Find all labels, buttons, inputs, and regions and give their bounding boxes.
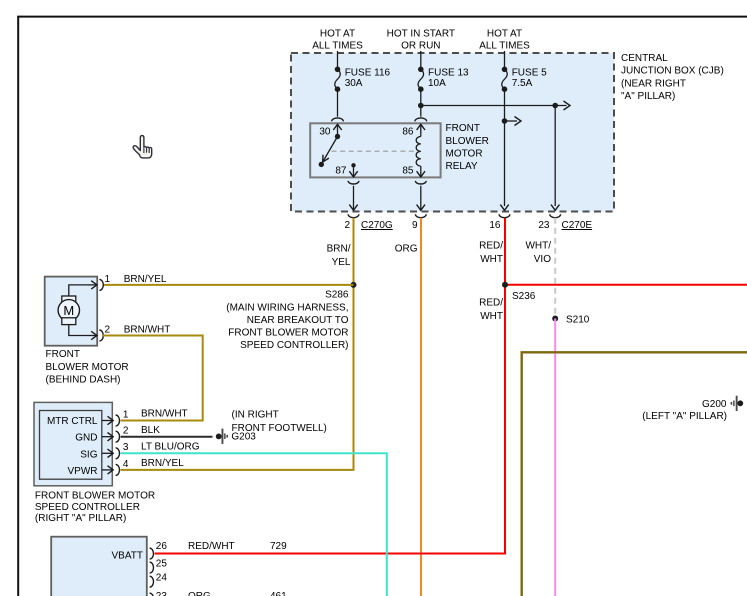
svg-text:1: 1 [105, 274, 111, 285]
wire dark BRN horizontal right edge and down [522, 352, 747, 596]
wire fuse13 branch to pin 23 column [418, 101, 570, 110]
svg-text:RED/: RED/ [479, 298, 503, 309]
connector C270G pin 2 at CJB border [344, 214, 392, 231]
splice S210 [552, 314, 590, 325]
label HOT IN START OR RUN [387, 29, 455, 52]
svg-text:HOT AT: HOT AT [487, 29, 522, 40]
wire label RED/WHT 729 [188, 541, 287, 552]
svg-text:85: 85 [402, 166, 414, 177]
controller name label [35, 490, 155, 524]
VBATT pin 26 connector [150, 541, 168, 559]
arrow down at CJB border pin 23 [551, 205, 559, 211]
VBATT pin 25 connector [150, 559, 168, 574]
svg-text:30: 30 [319, 127, 331, 138]
svg-text:FRONT: FRONT [46, 349, 80, 360]
svg-text:2: 2 [105, 324, 111, 335]
note (IN RIGHT FRONT FOOTWELL) [232, 410, 327, 434]
central junction box (CJB) dashed box [291, 53, 614, 212]
svg-text:2: 2 [123, 426, 129, 437]
svg-text:FUSE 116: FUSE 116 [345, 68, 391, 79]
svg-text:VPWR: VPWR [68, 466, 98, 477]
splice S236 [502, 282, 536, 302]
svg-text:1: 1 [123, 409, 129, 420]
svg-text:BRN/YEL: BRN/YEL [124, 274, 167, 285]
wire pin23 column inside CJB [554, 106, 556, 207]
svg-text:86: 86 [402, 127, 414, 138]
relay switch contact 30-87 [319, 134, 341, 167]
svg-text:26: 26 [156, 541, 168, 552]
svg-text:ALL TIMES: ALL TIMES [479, 41, 530, 52]
svg-text:BRN/WHT: BRN/WHT [124, 324, 171, 335]
svg-text:S286: S286 [325, 290, 349, 301]
speed controller inner box [40, 411, 102, 480]
svg-text:S236: S236 [512, 291, 536, 302]
svg-text:461: 461 [270, 591, 287, 596]
relay pin 86 entry connector [402, 118, 426, 138]
connector arc under relay pin 85 [415, 181, 426, 210]
connector C270E pin 23 at CJB border [538, 214, 592, 231]
svg-text:SIG: SIG [80, 449, 97, 460]
wire label BRN/WHT at motor pin2 [124, 324, 171, 335]
VBATT pin 23 connector [150, 591, 168, 596]
svg-text:(NEAR RIGHT: (NEAR RIGHT [621, 78, 686, 89]
ground G203 [216, 429, 257, 444]
svg-text:C270E: C270E [562, 220, 593, 231]
svg-text:2: 2 [344, 220, 350, 231]
wire label WHT/VIO [525, 241, 551, 266]
svg-text:(MAIN WIRING HARNESS,: (MAIN WIRING HARNESS, [226, 302, 348, 313]
svg-text:(LEFT "A" PILLAR): (LEFT "A" PILLAR) [642, 411, 727, 422]
svg-text:WHT: WHT [480, 254, 503, 265]
svg-text:FRONT: FRONT [446, 123, 480, 134]
svg-text:M: M [63, 303, 74, 318]
svg-text:BRN/YEL: BRN/YEL [141, 458, 184, 469]
svg-text:FRONT BLOWER MOTOR: FRONT BLOWER MOTOR [228, 327, 348, 338]
svg-text:4: 4 [123, 459, 129, 470]
svg-text:(BEHIND DASH): (BEHIND DASH) [46, 374, 121, 385]
svg-text:C270G: C270G [361, 220, 393, 231]
svg-text:VBATT: VBATT [112, 551, 143, 562]
svg-text:23: 23 [538, 220, 550, 231]
front blower motor speed controller outer box [34, 402, 112, 485]
svg-text:23: 23 [156, 591, 168, 596]
S286 note text [226, 302, 348, 351]
connector arc under relay pin 87 [348, 181, 359, 210]
fuse F13 10A [418, 51, 469, 117]
svg-text:"A" PILLAR): "A" PILLAR) [621, 91, 675, 102]
svg-text:ORG: ORG [395, 243, 418, 254]
svg-text:VIO: VIO [534, 254, 551, 265]
wire label BRN/YEL pin4 [141, 458, 184, 469]
svg-text:25: 25 [156, 559, 168, 570]
svg-text:SPEED CONTROLLER): SPEED CONTROLLER) [240, 340, 348, 351]
svg-text:MOTOR: MOTOR [446, 149, 483, 160]
motor pin 2 connector [88, 324, 111, 341]
motor name label [46, 349, 129, 385]
wire label BRN/YEL [327, 243, 351, 268]
relay internal dashed link [332, 150, 418, 152]
svg-text:(RIGHT "A" PILLAR): (RIGHT "A" PILLAR) [35, 513, 126, 524]
svg-text:WHT/: WHT/ [525, 241, 551, 252]
svg-text:LT BLU/ORG: LT BLU/ORG [141, 442, 200, 453]
wire LT BLU/ORG pin3 to bottom [121, 453, 387, 596]
arrow down at CJB border pin 16 [500, 205, 508, 211]
wire BLK pin2 to G203 [121, 436, 213, 438]
label HOT AT ALL TIMES (left) [312, 29, 363, 52]
relay pin 30 entry connector [319, 118, 343, 138]
svg-text:G200: G200 [702, 399, 727, 410]
wire label ORG [395, 243, 418, 254]
svg-text:NEAR BREAKOUT TO: NEAR BREAKOUT TO [247, 315, 349, 326]
svg-text:FRONT BLOWER MOTOR: FRONT BLOWER MOTOR [35, 490, 155, 501]
fuse F116 30A [335, 51, 391, 117]
svg-text:9: 9 [412, 220, 418, 231]
wire RED/WHT branch to right edge [505, 284, 747, 286]
wire label LT BLU/ORG pin3 [141, 442, 200, 453]
motor M symbol [58, 285, 88, 336]
mouse cursor [133, 136, 152, 158]
wire BRN/YEL motor pin1 to S286 [103, 284, 354, 286]
connector pin 9 at CJB border [412, 214, 426, 231]
svg-text:HOT IN START: HOT IN START [387, 29, 455, 40]
wire label BRN/WHT pin1 [141, 408, 188, 419]
relay pin 87 exit [335, 163, 357, 177]
wire label RED/WHT upper [479, 241, 503, 266]
svg-text:JUNCTION BOX (CJB): JUNCTION BOX (CJB) [621, 66, 724, 77]
front blower motor box [45, 277, 97, 346]
relay box: front blower motor relay [310, 123, 489, 177]
svg-text:G203: G203 [231, 432, 256, 443]
controller pin 3 connector [102, 442, 129, 459]
svg-text:HOT AT: HOT AT [320, 29, 355, 40]
svg-text:10A: 10A [428, 78, 446, 89]
controller pin 1 connector [102, 409, 129, 426]
wire label ORG 461 [188, 591, 287, 596]
wire BRN/WHT motor pin2 to MTR CTRL [103, 336, 203, 421]
svg-text:BLK: BLK [141, 425, 160, 436]
svg-text:FUSE 5: FUSE 5 [512, 68, 547, 79]
svg-text:SPEED CONTROLLER: SPEED CONTROLLER [35, 502, 140, 513]
connector pin 16 at CJB border [489, 214, 510, 231]
wire VIO solid lower to bottom [554, 319, 556, 596]
wire RED/WHT vertical pin 16 to VBATT [155, 218, 505, 554]
svg-text:ALL TIMES: ALL TIMES [312, 41, 363, 52]
wire WHT/VIO dashed upper [554, 218, 556, 319]
svg-text:30A: 30A [345, 78, 363, 89]
wire ORG vertical pin 9 to bottom [420, 218, 422, 596]
wire label RED/WHT lower [479, 298, 503, 323]
relay pin 85 exit [402, 166, 425, 177]
svg-text:729: 729 [270, 541, 287, 552]
svg-text:S210: S210 [566, 314, 590, 325]
fuse F5 7.5A [502, 51, 547, 206]
ground G200 [642, 396, 743, 422]
motor pin 1 connector [88, 274, 111, 291]
svg-text:87: 87 [335, 166, 347, 177]
svg-text:RELAY: RELAY [446, 161, 478, 172]
svg-text:BLOWER MOTOR: BLOWER MOTOR [46, 362, 129, 373]
svg-text:MTR CTRL: MTR CTRL [47, 416, 98, 427]
svg-text:WHT: WHT [480, 311, 503, 322]
svg-text:GND: GND [75, 433, 97, 444]
wire BRN/YEL vertical C270G pin2 to VPWR [121, 218, 354, 470]
controller pin 2 connector [102, 426, 129, 443]
svg-text:16: 16 [489, 220, 501, 231]
wire fuse5 branch arrow [502, 117, 521, 126]
relay coil [416, 136, 421, 166]
svg-text:3: 3 [123, 442, 129, 453]
svg-text:RED/: RED/ [479, 241, 503, 252]
controller pin 4 connector [102, 459, 129, 476]
svg-text:OR RUN: OR RUN [401, 41, 440, 52]
CJB name label [621, 53, 724, 102]
svg-text:ORG: ORG [188, 591, 211, 596]
svg-text:7.5A: 7.5A [512, 78, 533, 89]
svg-text:(IN RIGHT: (IN RIGHT [232, 410, 279, 421]
svg-text:BRN/WHT: BRN/WHT [141, 408, 188, 419]
svg-text:BLOWER: BLOWER [446, 136, 489, 147]
splice S286 [325, 282, 356, 301]
svg-text:FUSE 13: FUSE 13 [428, 68, 469, 79]
svg-text:CENTRAL: CENTRAL [621, 53, 668, 64]
svg-text:24: 24 [156, 572, 168, 583]
wire label BLK pin2 [141, 425, 160, 436]
VBATT module box [51, 537, 147, 596]
svg-text:YEL: YEL [332, 257, 351, 268]
svg-text:BRN/: BRN/ [327, 243, 351, 254]
label HOT AT ALL TIMES (right) [479, 29, 530, 52]
VBATT pin 24 connector [150, 572, 168, 587]
wire label BRN/YEL at motor pin1 [124, 274, 167, 285]
svg-text:RED/WHT: RED/WHT [188, 541, 235, 552]
